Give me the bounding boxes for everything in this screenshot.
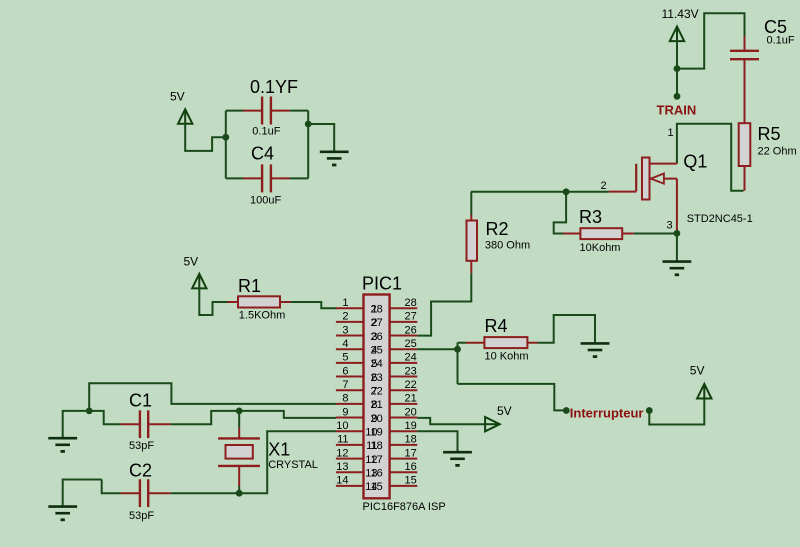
svg-text:18: 18	[371, 440, 383, 452]
svg-text:22: 22	[405, 379, 417, 391]
wire pin 19 to ground	[417, 431, 457, 451]
label PIC1	[362, 274, 402, 294]
node junction crystal bottom	[236, 490, 243, 497]
svg-text:27: 27	[371, 317, 383, 329]
label R3	[579, 207, 602, 227]
svg-text:5V: 5V	[497, 404, 512, 418]
capacitor C2 left lead	[121, 492, 140, 494]
svg-text:7: 7	[342, 379, 348, 391]
IC PIC1 inner pin numbers	[365, 304, 383, 494]
wire 5V arrow to cap rail	[185, 123, 226, 151]
svg-text:TRAIN: TRAIN	[657, 103, 697, 118]
node Interrupteur left	[563, 407, 570, 414]
svg-text:19: 19	[371, 427, 383, 439]
wire C1 to crystal node	[171, 411, 239, 424]
label C4	[251, 144, 274, 164]
svg-text:13: 13	[336, 461, 348, 473]
wire R4 to ground	[538, 315, 596, 343]
svg-text:R1: R1	[238, 276, 261, 296]
power 5V arrow (pin 20)	[484, 417, 500, 431]
svg-text:5V: 5V	[690, 363, 705, 377]
svg-text:10 Kohm: 10 Kohm	[485, 351, 529, 363]
label R1	[238, 276, 261, 296]
ground (R4)	[581, 343, 610, 356]
wire pin 20 to 5V arrow	[417, 418, 484, 424]
wire node to left ground	[63, 411, 89, 437]
svg-text:0.1uF: 0.1uF	[252, 126, 280, 138]
svg-text:9: 9	[342, 406, 348, 418]
svg-text:10Kohm: 10Kohm	[580, 242, 621, 254]
wire node vertical (R4 net)	[457, 343, 459, 384]
wire cap-pair right rail	[307, 111, 309, 179]
svg-text:22 Ohm: 22 Ohm	[758, 146, 797, 158]
svg-text:C1: C1	[129, 390, 152, 410]
svg-text:16: 16	[371, 468, 383, 480]
svg-text:C4: C4	[251, 144, 274, 164]
transistor Q1 channel bar	[642, 158, 650, 200]
power 5V arrow (Interrupteur)	[697, 384, 711, 400]
label C5	[764, 17, 787, 37]
resistor R4 right lead	[527, 342, 537, 344]
net label Interrupteur	[570, 405, 644, 420]
svg-text:0.1YF: 0.1YF	[250, 77, 298, 97]
resistor R1 right lead	[280, 301, 291, 303]
svg-text:26: 26	[405, 324, 417, 336]
power 5V label (pin 20)	[497, 404, 512, 418]
resistor R5 body	[739, 123, 751, 166]
power 5V label (R1)	[184, 255, 199, 269]
capacitor C5 plates	[730, 51, 759, 59]
svg-text:380 Ohm: 380 Ohm	[485, 240, 530, 252]
IC PIC1 right pin stubs	[390, 308, 418, 486]
label R4	[485, 316, 508, 336]
svg-text:6: 6	[342, 365, 348, 377]
wire pin 25 to node	[417, 348, 457, 350]
wire node to C1	[89, 411, 120, 424]
wire gate net to R3	[554, 192, 566, 234]
svg-text:11.43V: 11.43V	[662, 7, 699, 21]
power 5V label (Interrupteur)	[690, 363, 705, 377]
wire gate net horizontal	[471, 191, 609, 193]
svg-text:1: 1	[342, 297, 348, 309]
resistor R1 body	[238, 296, 280, 307]
IC PIC1 left pin numbers	[336, 297, 348, 487]
svg-text:23: 23	[405, 365, 417, 377]
ground (Q1 source)	[663, 262, 692, 275]
capacitor C1 plates	[140, 410, 148, 438]
svg-text:25: 25	[405, 338, 417, 350]
svg-text:STD2NC45-1: STD2NC45-1	[687, 213, 753, 225]
svg-text:R5: R5	[758, 124, 781, 144]
svg-text:22: 22	[371, 386, 383, 398]
transistor Q1 substrate arrow	[651, 174, 664, 184]
svg-text:8: 8	[342, 393, 348, 405]
node junction right cap rail	[305, 121, 312, 128]
svg-text:53pF: 53pF	[129, 510, 154, 522]
svg-text:R2: R2	[486, 219, 509, 239]
label 0.1YF	[250, 77, 298, 97]
svg-text:1: 1	[668, 127, 674, 139]
wire bottom rail left segment	[226, 177, 243, 179]
wire gate net down to R2	[470, 192, 472, 215]
wire TRAIN stub	[676, 69, 678, 97]
capacitor C1 right lead	[148, 423, 171, 425]
svg-text:25: 25	[371, 345, 383, 357]
wire crystal bottom to pin 10	[239, 431, 336, 493]
power 5V arrow (top-left)	[178, 109, 192, 125]
svg-text:26: 26	[371, 331, 383, 343]
svg-text:C2: C2	[129, 461, 152, 481]
wire top rail right segment	[290, 110, 308, 112]
node junction crystal top	[236, 408, 243, 415]
svg-text:20: 20	[405, 406, 417, 418]
wire R3 to Q1 source node	[634, 233, 677, 235]
svg-text:5V: 5V	[184, 255, 199, 269]
svg-text:17: 17	[405, 447, 417, 459]
power 11.43V label	[662, 7, 699, 21]
label C2	[129, 461, 152, 481]
node junction left cap rail	[222, 134, 229, 141]
resistor R1 left lead	[228, 301, 239, 303]
value 10 Kohm	[485, 351, 529, 363]
svg-text:21: 21	[405, 393, 417, 405]
capacitor 0.1YF plates	[262, 97, 271, 125]
svg-text:14: 14	[336, 475, 348, 487]
resistor R2 bottom lead	[470, 261, 472, 273]
wire top rail left segment	[226, 110, 243, 112]
svg-text:Q1: Q1	[683, 151, 707, 171]
wire R1 to pin 1	[291, 302, 337, 308]
transistor Q1 gate bar	[635, 164, 637, 192]
svg-text:11: 11	[337, 434, 348, 446]
svg-text:0.1uF: 0.1uF	[767, 35, 795, 47]
svg-text:24: 24	[371, 358, 383, 370]
crystal X1 body	[226, 445, 253, 459]
net label TRAIN	[657, 103, 697, 118]
svg-text:2: 2	[601, 180, 607, 192]
pin number 3 (Q1 source)	[667, 220, 673, 232]
svg-text:12: 12	[336, 447, 348, 459]
crystal X1 bottom plate	[218, 465, 260, 467]
svg-text:3: 3	[342, 324, 348, 336]
wire to Interrupteur	[458, 384, 564, 411]
label X1	[268, 440, 290, 460]
label Q1	[683, 151, 707, 171]
svg-text:20: 20	[371, 413, 383, 425]
wire supply to C5 top	[677, 13, 745, 68]
transistor Q1 drain stub	[650, 163, 677, 165]
node junction TRAIN rail	[674, 65, 681, 72]
ground (C2)	[48, 507, 77, 520]
value 380 Ohm	[485, 240, 530, 252]
capacitor C5 top lead	[744, 36, 746, 51]
svg-text:100uF: 100uF	[250, 195, 281, 207]
wire crystal top to pin 9	[239, 411, 336, 418]
wire pin 8 to ground net	[89, 383, 336, 411]
label C1	[129, 390, 152, 410]
transistor Q1 source stub	[650, 178, 677, 180]
capacitor C1 left lead	[121, 423, 140, 425]
capacitor 0.1YF leads	[243, 110, 290, 112]
svg-text:16: 16	[405, 461, 417, 473]
crystal X1 top plate	[218, 437, 260, 439]
wire C2 to crystal bottom	[171, 492, 239, 494]
svg-text:15: 15	[371, 481, 383, 493]
value 100uF	[250, 195, 281, 207]
wire C2 ground branch	[63, 480, 102, 506]
pin number 1 (Q1 drain)	[668, 127, 674, 139]
node junction pin 25	[454, 346, 461, 353]
svg-text:X1: X1	[268, 440, 290, 460]
resistor R4 left lead	[466, 342, 484, 344]
resistor R3 left lead	[563, 233, 580, 235]
IC PIC1 right pin numbers	[405, 297, 417, 487]
svg-text:PIC1: PIC1	[362, 274, 402, 294]
value 10Kohm	[580, 242, 621, 254]
capacitor C2 plates	[140, 479, 148, 507]
svg-text:PIC16F876A ISP: PIC16F876A ISP	[363, 501, 446, 513]
transistor Q1 gate lead	[609, 191, 637, 193]
node junction gate net	[563, 188, 570, 195]
capacitor C4 leads	[243, 177, 290, 179]
wire 5V to R1	[199, 288, 227, 316]
svg-text:28: 28	[405, 297, 417, 309]
IC U1 PIC1 body	[364, 295, 390, 499]
value 53pF (C2)	[129, 510, 154, 522]
label R5	[758, 124, 781, 144]
svg-text:5V: 5V	[170, 90, 185, 104]
capacitor C2 right lead	[148, 492, 171, 494]
crystal X1 bottom lead	[238, 466, 240, 493]
node junction C1 ground	[86, 408, 93, 415]
svg-text:4: 4	[342, 338, 348, 350]
wire node to R4	[458, 342, 467, 344]
svg-text:21: 21	[371, 399, 383, 411]
svg-text:R4: R4	[485, 316, 508, 336]
power 11.43V arrow	[670, 27, 684, 43]
svg-text:27: 27	[405, 311, 417, 323]
svg-text:53pF: 53pF	[129, 440, 154, 452]
svg-text:18: 18	[405, 434, 417, 446]
svg-text:28: 28	[371, 304, 383, 316]
value 0.1uF (C3)	[252, 126, 280, 138]
svg-text:3: 3	[667, 220, 673, 232]
value 1.5KOhm	[239, 310, 285, 322]
label R2	[486, 219, 509, 239]
svg-text:19: 19	[405, 420, 417, 432]
wire bottom rail right segment	[290, 177, 308, 179]
wire R2 to pin 26	[417, 273, 471, 335]
wire Interrupteur to 5V arrow	[649, 399, 704, 425]
crystal X1 top lead	[238, 411, 240, 439]
svg-text:10: 10	[336, 420, 348, 432]
resistor R3 body	[580, 228, 622, 239]
resistor R5 bottom lead	[744, 166, 746, 191]
resistor R4 body	[484, 337, 527, 348]
svg-text:24: 24	[405, 352, 417, 364]
svg-text:CRYSTAL: CRYSTAL	[268, 459, 318, 471]
svg-text:15: 15	[405, 475, 417, 487]
svg-text:23: 23	[371, 372, 383, 384]
value PIC16F876A ISP	[363, 501, 446, 513]
value CRYSTAL	[268, 459, 318, 471]
IC PIC1 left pin stubs	[336, 308, 364, 486]
capacitor C5 bottom lead	[744, 59, 746, 123]
value 22 Ohm	[758, 146, 797, 158]
pin number 2 (Q1 gate)	[601, 180, 607, 192]
svg-text:2: 2	[342, 311, 348, 323]
power 5V arrow (R1)	[192, 274, 206, 290]
node TRAIN endpoint	[674, 93, 681, 100]
ground (C1)	[48, 438, 77, 451]
ground (cap pair)	[320, 152, 349, 165]
svg-text:5: 5	[342, 352, 348, 364]
node junction Q1 source	[674, 230, 681, 237]
wire cap-pair left rail	[225, 111, 227, 179]
wire right rail to ground	[308, 124, 334, 151]
node Interrupteur right	[646, 407, 653, 414]
svg-text:Interrupteur: Interrupteur	[570, 405, 644, 420]
capacitor C4 plates	[262, 164, 271, 192]
transistor Q1 source lead down	[676, 179, 678, 234]
svg-text:17: 17	[371, 454, 383, 466]
resistor R3 right lead	[622, 233, 634, 235]
power 5V label (top-left)	[170, 90, 185, 104]
value 0.1uF (C5)	[767, 35, 795, 47]
resistor R2 top lead	[470, 215, 472, 221]
ground (pin 19)	[443, 452, 472, 465]
wire Q1 source to ground	[676, 233, 678, 261]
value 53pF (C1)	[129, 440, 154, 452]
resistor R2 body	[467, 221, 478, 261]
svg-text:R3: R3	[579, 207, 602, 227]
svg-text:1.5KOhm: 1.5KOhm	[239, 310, 285, 322]
wire C2 left jog	[102, 480, 121, 494]
wire Q1 drain to R5	[677, 124, 744, 191]
wire 11.43V stem	[676, 40, 678, 69]
value STD2NC45-1	[687, 213, 753, 225]
